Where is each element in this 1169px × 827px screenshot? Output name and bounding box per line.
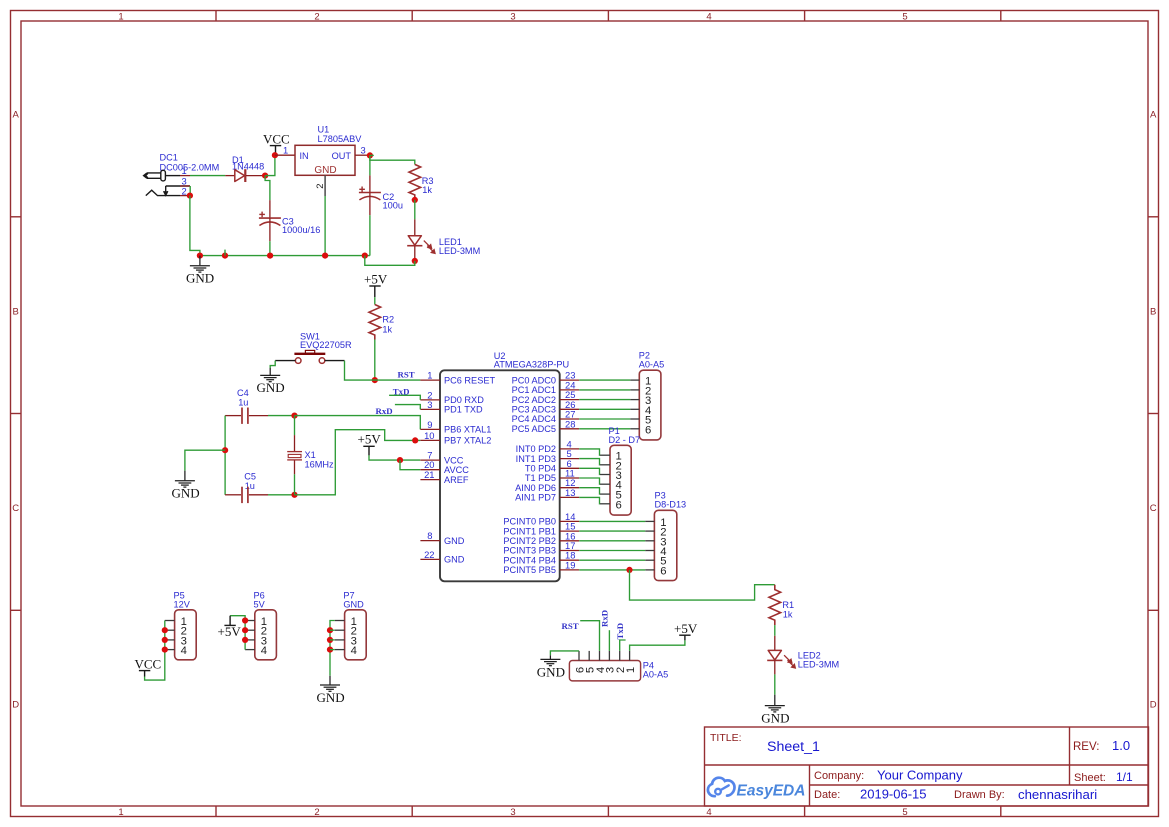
LED LED1 LED-3MM [407,219,480,261]
capacitor C4 1u [225,388,268,424]
svg-text:C: C [12,503,19,514]
svg-text:PCINT3 PB3: PCINT3 PB3 [503,546,556,556]
wire C4 right to XTAL1 node [268,415,295,417]
wire C4/C5 left vertical [224,416,226,495]
U2 right pin numbers [565,370,575,571]
svg-text:AIN0 PD6: AIN0 PD6 [515,483,556,493]
power flag +5V (P4) [674,621,698,640]
svg-text:D: D [12,700,19,711]
svg-text:LED-3MM: LED-3MM [439,246,480,256]
ground GND (under P7) [320,676,340,692]
svg-text:6: 6 [616,499,622,511]
svg-text:PCINT4 PB4: PCINT4 PB4 [503,555,556,565]
node XTAL1 junction [291,413,297,419]
svg-text:PCINT0 PB0: PCINT0 PB0 [503,517,556,527]
diode D1 1N4448 [225,155,265,182]
wire junction up to VCC node [265,155,275,175]
wire R2 to RST net [374,340,376,381]
svg-text:1000u/16: 1000u/16 [282,225,320,235]
svg-text:1: 1 [118,807,123,818]
svg-text:A0-A5: A0-A5 [639,360,665,370]
wire PB5 node to R1 [630,570,775,600]
svg-text:AIN1 PD7: AIN1 PD7 [515,493,556,503]
svg-text:EVQ22705R: EVQ22705R [300,340,352,350]
svg-text:RxD: RxD [599,610,609,627]
svg-text:4: 4 [181,645,187,657]
node P5 junctions [162,627,168,633]
svg-text:GND: GND [761,710,789,725]
svg-text:PB7 XTAL2: PB7 XTAL2 [444,436,491,446]
svg-text:4: 4 [706,12,711,23]
svg-text:A0-A5: A0-A5 [643,669,669,679]
svg-text:T0 PD4: T0 PD4 [525,464,556,474]
node left GND junction [222,447,228,453]
power flag VCC [263,132,290,156]
node LED1 cathode junction [412,258,418,264]
svg-text:A: A [13,110,20,121]
switch SW1 EVQ22705R [275,332,352,364]
connector DC1 (DC005-2.0MM barrel jack) [144,153,220,197]
svg-text:RST: RST [398,370,415,380]
svg-text:PB6 XTAL1: PB6 XTAL1 [444,425,491,435]
node PB5 junction [626,567,632,573]
wire junction to U2 pin20 [400,460,420,470]
svg-text:1.0: 1.0 [1112,738,1130,753]
node VCC-AVCC junction [397,457,403,463]
svg-text:10: 10 [424,430,434,441]
connector P1 D2-D7 [600,426,640,515]
svg-text:3: 3 [510,12,515,23]
node VCC junction [272,152,278,158]
svg-text:2: 2 [182,186,187,197]
svg-text:1k: 1k [422,185,432,195]
wire P4 pin1 to +5V [630,640,685,651]
svg-text:VCC: VCC [135,656,162,671]
svg-text:1: 1 [182,165,187,176]
svg-text:2019-06-15: 2019-06-15 [860,787,927,802]
svg-text:C4: C4 [237,388,249,398]
svg-text:1k: 1k [382,325,392,335]
wire R1 to LED2 [774,625,776,636]
connector P7 GND [335,591,366,660]
wire P4 pin3 RxD stub [608,630,610,651]
wire P6 bus to +5V [230,616,245,650]
svg-text:1: 1 [283,145,288,156]
resistor R3 1k [409,164,434,200]
wire SW1 left to GND flag [270,361,275,368]
svg-text:Drawn By:: Drawn By: [954,789,1005,801]
svg-text:INT1 PD3: INT1 PD3 [516,454,556,464]
svg-text:12V: 12V [174,600,191,610]
power flag +5V (AVCC/VCC) [358,432,382,456]
wire P5 bus to VCC [145,621,165,681]
wire C5 to XTAL2 node [268,494,295,496]
wire P7 bus to GND [330,621,335,676]
svg-text:DC005-2.0MM: DC005-2.0MM [160,163,220,173]
svg-text:1: 1 [625,667,637,673]
svg-text:VCC: VCC [444,455,464,465]
svg-text:C5: C5 [244,472,256,482]
svg-text:PC0 ADC0: PC0 ADC0 [512,375,556,385]
wire U2 pin23..28 to P2 [579,380,630,429]
svg-text:2: 2 [314,807,319,818]
svg-text:AREF: AREF [444,475,469,485]
svg-text:4: 4 [706,807,711,818]
svg-text:Sheet:: Sheet: [1074,772,1106,784]
resistor R2 1k [369,305,394,340]
svg-text:GND: GND [314,165,336,176]
node diode cathode junction [262,173,268,179]
svg-text:6: 6 [660,565,666,577]
svg-text:2: 2 [315,184,326,189]
U2 right pin names [503,375,556,575]
connector P6 5V [245,591,276,660]
node R3-LED1 junction [412,197,418,203]
svg-text:DC1: DC1 [160,153,178,163]
svg-text:Sheet_1: Sheet_1 [767,739,820,755]
svg-text:5: 5 [902,12,907,23]
IC U2 ATMEGA328P-PU [440,351,569,581]
svg-text:5: 5 [902,807,907,818]
svg-text:Date:: Date: [814,789,840,801]
svg-text:16MHz: 16MHz [305,460,335,470]
frame column labels [118,12,907,819]
U2 left pin numbers [424,370,434,560]
frame row labels [12,110,1157,711]
svg-text:PC4 ADC4: PC4 ADC4 [512,414,556,424]
wire U2 pin4..13 to P1 (jogs) [579,449,600,504]
wire C3 to GND rail [269,241,271,255]
svg-text:19: 19 [565,559,575,570]
svg-text:PC6 RESET: PC6 RESET [444,375,495,385]
crystal X1 16MHz [287,416,334,495]
svg-text:D8-D13: D8-D13 [655,500,687,510]
power flag +5V (above R2) [364,272,388,298]
U2 left pin names [444,375,495,564]
svg-text:IN: IN [300,151,309,161]
svg-text:3: 3 [510,807,515,818]
svg-text:GND: GND [444,555,465,565]
svg-text:GND: GND [172,486,200,501]
svg-text:RxD: RxD [376,406,393,416]
svg-text:AVCC: AVCC [444,465,469,475]
svg-text:1u: 1u [238,398,248,408]
svg-text:R1: R1 [782,600,794,610]
svg-text:GND: GND [317,690,345,705]
svg-text:4: 4 [261,645,267,657]
node P7 junctions [327,627,333,633]
svg-text:A: A [1150,110,1157,121]
svg-text:REV:: REV: [1073,741,1099,753]
svg-text:1: 1 [118,12,123,23]
svg-text:GND: GND [537,664,565,679]
svg-text:TxD: TxD [615,623,625,640]
svg-text:PC5 ADC5: PC5 ADC5 [512,424,556,434]
wire U1 pin3 junction [367,152,373,158]
EasyEDA logo [708,778,806,800]
svg-text:3: 3 [427,399,432,410]
ground GND (under LED2) [765,695,785,712]
wire DC1 pin2 junction down to GND rail [187,193,193,199]
power flag VCC (P5) [135,656,162,676]
svg-text:4: 4 [351,645,357,657]
svg-text:3: 3 [361,145,366,156]
svg-text:1: 1 [427,370,432,381]
wire DC1 pin3 to pin2 [189,186,191,196]
svg-text:1u: 1u [245,481,255,491]
capacitor C5 1u [225,472,268,504]
wire LED2 to GND [774,674,776,694]
svg-text:GND: GND [343,600,364,610]
wire stub at x=225 [224,250,226,256]
svg-text:T1 PD5: T1 PD5 [525,473,556,483]
wire XTAL1 node to U2 pin9 [295,416,421,430]
svg-text:8: 8 [427,530,432,541]
wire P4 pin6 to GND [550,651,579,655]
svg-text:ATMEGA328P-PU: ATMEGA328P-PU [494,359,569,369]
node RxD stub to pin3 [395,405,420,410]
op-amp U1 L7805ABV regulator [283,125,370,197]
svg-text:+5V: +5V [364,272,388,287]
svg-text:+5V: +5V [358,432,382,447]
svg-text:D2 - D7: D2 - D7 [609,435,641,445]
svg-text:GND: GND [444,536,465,546]
wire +5V to U2 pin7 [369,455,420,460]
wire GND rail [200,255,370,257]
wire XTAL2 node to U2 pin10 [295,430,421,495]
capacitor C2 100u [359,155,403,255]
svg-text:Company:: Company: [814,770,864,782]
svg-text:L7805ABV: L7805ABV [318,134,363,144]
svg-text:OUT: OUT [332,151,352,161]
svg-text:X1: X1 [305,450,316,460]
U2 left pins [420,380,440,559]
svg-text:chennasrihari: chennasrihari [1018,787,1097,802]
svg-text:Your Company: Your Company [877,768,963,783]
ground GND (under SW1) [260,368,280,382]
connector P5 12V [165,591,196,660]
svg-text:B: B [1150,307,1156,318]
svg-text:PCINT5 PB5: PCINT5 PB5 [503,565,556,575]
svg-text:TITLE:: TITLE: [710,732,742,744]
node pin10 joint [412,437,418,443]
U1 pin 2 line [324,175,326,196]
resistor R1 1k [769,585,794,625]
svg-text:R2: R2 [382,315,394,325]
svg-text:RST: RST [562,621,579,631]
capacitor C3 1000u/16 [259,200,320,241]
svg-text:GND: GND [186,271,214,286]
node RST junction [372,377,378,383]
svg-text:2: 2 [314,12,319,23]
power flag +5V (P6, flipped) [218,616,242,639]
svg-text:13: 13 [565,487,575,498]
ground GND (left of P4) [540,655,560,665]
ground GND (left of C4/C5) [175,471,195,487]
wire SW1 right to RST wire [345,361,421,381]
wire P4 pin4 RST stub [580,621,599,651]
wire LED1 to GND rail [365,256,415,266]
svg-text:PC1 ADC1: PC1 ADC1 [512,385,556,395]
svg-text:B: B [13,307,19,318]
wire U1 pin2 to GND rail [324,196,326,256]
ground GND (power rail) [190,256,210,273]
connector P4 A0-A5 [569,651,668,681]
svg-text:U1: U1 [318,125,330,135]
wire junction down to C3 [265,176,270,201]
U1 pin 3 line [355,154,370,156]
svg-text:PCINT2 PB2: PCINT2 PB2 [503,536,556,546]
title block [705,727,1149,806]
svg-text:22: 22 [424,549,434,560]
svg-text:5V: 5V [254,600,266,610]
svg-text:C: C [1150,503,1157,514]
node rail junctions [197,253,203,259]
svg-text:LED-3MM: LED-3MM [798,660,839,670]
svg-text:PCINT1 PB1: PCINT1 PB1 [503,526,556,536]
wire DC1 pin1 to D1 anode [190,175,225,177]
U2 right pins [560,380,580,570]
svg-text:PC2 ADC2: PC2 ADC2 [512,395,556,405]
wire R3 to LED1 [414,200,416,220]
svg-text:+5V: +5V [218,624,242,639]
svg-text:INT0 PD2: INT0 PD2 [516,444,556,454]
svg-text:+5V: +5V [674,621,698,636]
svg-text:21: 21 [424,469,434,480]
svg-text:100u: 100u [383,201,403,211]
LED LED2 LED-3MM [767,636,839,675]
svg-text:PC3 ADC3: PC3 ADC3 [512,405,556,415]
svg-text:28: 28 [565,418,575,429]
node P6 junctions [242,617,248,623]
svg-text:1k: 1k [783,610,793,620]
wire junction to GND flag [185,450,225,471]
wire to R3 [370,155,415,164]
connector P2 A0-A5 [630,351,664,440]
wire VCC node to U1 pin1 [275,154,295,156]
svg-text:GND: GND [257,380,285,395]
svg-text:9: 9 [427,419,432,430]
svg-text:PD1 TXD: PD1 TXD [444,405,483,415]
svg-text:PD0 RXD: PD0 RXD [444,395,484,405]
svg-text:D: D [1150,700,1157,711]
wire P4 pin2 TxD stub [620,640,626,651]
svg-text:6: 6 [645,424,651,436]
wire U2 pin14..19 to P3 [579,521,645,570]
node XTAL2 junction [291,492,297,498]
wire +5V to R2 [374,297,376,304]
svg-text:EasyEDA: EasyEDA [737,783,806,800]
connector P3 D8-D13 [645,491,686,581]
svg-text:1/1: 1/1 [1116,770,1133,784]
